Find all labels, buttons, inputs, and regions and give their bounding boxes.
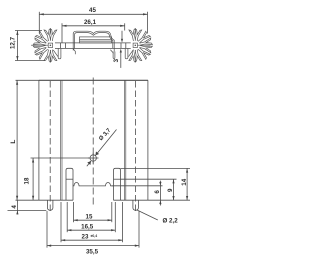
dimension 15 line	[74, 219, 112, 221]
dimension 16,5 line	[67, 229, 115, 231]
svg-text:35,5: 35,5	[86, 248, 99, 255]
svg-text:±0,4: ±0,4	[91, 234, 98, 238]
dimension 4 line	[8, 200, 47, 214]
dimension 14 line	[186, 168, 188, 200]
svg-text:12,7: 12,7	[10, 36, 17, 49]
svg-text:14: 14	[181, 178, 188, 185]
svg-text:L: L	[10, 140, 17, 144]
top view wall tick left inner	[64, 43, 66, 49]
right fin star	[129, 29, 153, 62]
dimension 9 line	[172, 179, 174, 200]
top view wall tick left outer	[60, 43, 62, 49]
svg-text:Ø 3,7: Ø 3,7	[98, 128, 112, 142]
front view bottom edge	[39, 199, 148, 201]
mounting hole Ø3,7	[88, 153, 99, 164]
dimension L line	[16, 80, 39, 200]
svg-text:4: 4	[11, 205, 18, 209]
center axis (dashed)	[92, 78, 94, 207]
dimension 26,1 line	[62, 23, 125, 43]
left wall tab below rail	[53, 49, 61, 59]
left solder pin	[47, 200, 53, 210]
pin leader Ø2,2	[137, 210, 158, 220]
front view top cap	[39, 79, 148, 81]
dimension 3	[120, 31, 123, 68]
svg-text:3: 3	[113, 58, 120, 62]
dimension 45 line	[39, 12, 147, 34]
svg-text:16,5: 16,5	[81, 223, 94, 230]
hidden fin line right (dashed)	[135, 81, 137, 214]
right solder pin	[133, 200, 139, 210]
front view right edge	[147, 80, 149, 200]
svg-text:Ø 2,2: Ø 2,2	[163, 218, 179, 225]
svg-text:26,1: 26,1	[84, 19, 97, 26]
dimension 12,7 line	[15, 31, 45, 61]
channel wall right (double line)	[124, 80, 125, 200]
dimension 23 line	[61, 239, 123, 241]
right side extension lines	[112, 168, 191, 200]
channel floor with humps	[73, 183, 114, 186]
left fin star	[31, 29, 57, 62]
hidden fin line left (dashed)	[49, 81, 51, 214]
dimension 6 line	[159, 181, 161, 206]
top view wall tick right outer	[125, 43, 127, 49]
svg-text:45: 45	[89, 7, 96, 14]
right wall tab below rail	[125, 49, 133, 59]
L top extension	[16, 79, 39, 81]
svg-text:9: 9	[167, 188, 174, 192]
svg-text:6: 6	[154, 190, 161, 194]
front view left edge	[38, 80, 40, 200]
top view body rails	[55, 43, 131, 49]
svg-text:15: 15	[86, 213, 93, 220]
transistor on top view	[80, 37, 112, 43]
post left	[66, 168, 73, 200]
hole leader Ø3,7	[87, 130, 117, 167]
retaining clip	[73, 31, 115, 58]
post right	[114, 168, 121, 200]
svg-text:23: 23	[82, 234, 89, 241]
channel wall left (double line)	[61, 80, 62, 200]
top view wall tick right inner	[120, 43, 122, 49]
svg-text:18: 18	[24, 177, 31, 184]
dimension 35,5 line	[47, 245, 139, 247]
bottom extension lines	[47, 202, 139, 248]
dimension 18 line	[31, 158, 90, 200]
